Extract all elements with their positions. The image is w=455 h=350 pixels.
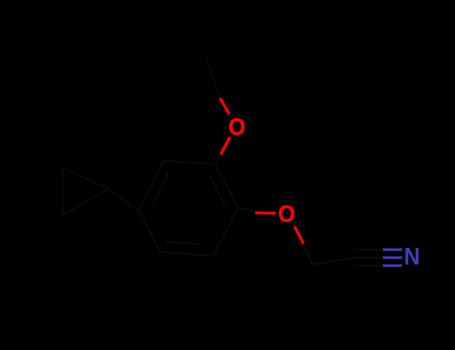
- cyclopropyl lower edge: [62, 189, 108, 216]
- nitrile triple bond lower line gray part: [353, 265, 384, 267]
- svg-text:O: O: [278, 200, 295, 227]
- nitrile triple bond middle line gray part: [353, 257, 384, 259]
- nitrile triple bond lower line blue stub: [383, 264, 402, 267]
- benzene ring bond C2-C3 (top edge): [163, 161, 215, 164]
- bond top O to ring C2: red stub: [221, 137, 230, 155]
- benzene ring bond C4-C5 (lower-left edge): [139, 211, 161, 252]
- nitrile triple bond middle line blue stub: [383, 256, 402, 259]
- nitrile triple bond upper line gray part: [353, 249, 384, 251]
- cyclopropyl upper edge: [62, 168, 108, 189]
- svg-text:O: O: [228, 113, 245, 140]
- bond ring C1 to ether O: red stub: [255, 211, 275, 214]
- bond ether O to CH2: gray part: [304, 244, 313, 265]
- benzene ring bond C6-C1 (lower-right edge): [213, 208, 238, 257]
- N label of nitrile: [404, 243, 420, 270]
- O label of ether: [278, 200, 295, 227]
- bond cyclopropyl apex to ring C4: [109, 189, 139, 211]
- cyclopropyl left vertical edge: [61, 168, 63, 216]
- bond CH2 to nitrile carbon: [313, 258, 353, 265]
- svg-text:N: N: [404, 243, 420, 270]
- nitrile triple bond upper line blue stub: [383, 248, 402, 251]
- bond top O to ring C2: gray part: [215, 155, 221, 164]
- benzene ring inner double-bond line along C3-C4: [151, 172, 168, 208]
- benzene ring bond C1-C2 (right edge): [215, 164, 238, 208]
- benzene ring inner double-bond line along C1-C2: [209, 175, 226, 208]
- methoxy bond CH3-O gray half: [206, 56, 221, 98]
- methoxy bond red stub near top O: [220, 98, 229, 114]
- benzene ring bond C5-C6 (bottom edge): [161, 252, 214, 256]
- benzene ring inner double-bond line along C5-C6: [165, 241, 200, 244]
- bond ether O to CH2: red stub: [294, 226, 303, 243]
- benzene ring bond C3-C4 (upper-left edge): [139, 161, 164, 211]
- O label of methoxy: [228, 113, 245, 140]
- bond ring C1 to ether O: gray part: [238, 208, 256, 213]
